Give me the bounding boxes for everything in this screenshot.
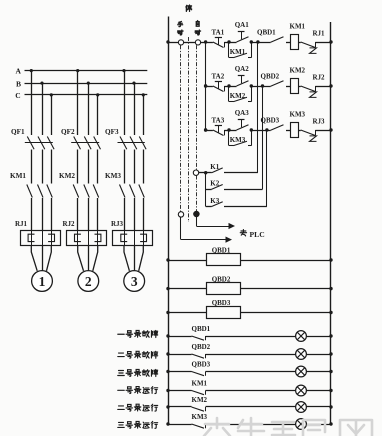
svg-text:KM1: KM1 bbox=[10, 172, 26, 180]
svg-text:RJ2: RJ2 bbox=[313, 73, 326, 81]
svg-text:3: 3 bbox=[131, 274, 138, 289]
svg-text:KM2: KM2 bbox=[192, 396, 208, 404]
svg-text:RJ1: RJ1 bbox=[15, 220, 28, 228]
svg-text:QF1: QF1 bbox=[11, 128, 25, 136]
svg-text:QBD2: QBD2 bbox=[192, 343, 211, 351]
svg-text:RJ1: RJ1 bbox=[313, 29, 326, 37]
svg-text:KM1: KM1 bbox=[192, 380, 208, 388]
svg-text:KM3: KM3 bbox=[230, 136, 246, 144]
svg-text:RJ3: RJ3 bbox=[313, 117, 326, 125]
svg-text:QF2: QF2 bbox=[61, 128, 75, 136]
svg-text:1: 1 bbox=[39, 274, 46, 289]
svg-text:KM3: KM3 bbox=[290, 110, 306, 118]
svg-text:QF3: QF3 bbox=[105, 128, 119, 136]
svg-text:QBD1: QBD1 bbox=[192, 325, 211, 333]
svg-text:TA3: TA3 bbox=[212, 117, 225, 125]
svg-text:QBD2: QBD2 bbox=[212, 275, 231, 283]
svg-text:2: 2 bbox=[85, 274, 92, 289]
svg-text:QA2: QA2 bbox=[235, 65, 250, 73]
svg-text:KM2: KM2 bbox=[59, 172, 75, 180]
svg-text:QBD1: QBD1 bbox=[212, 247, 231, 255]
svg-text:QA3: QA3 bbox=[235, 109, 250, 117]
svg-text:TA2: TA2 bbox=[212, 73, 225, 81]
svg-text:KM3: KM3 bbox=[105, 172, 121, 180]
svg-text:QA1: QA1 bbox=[235, 21, 250, 29]
svg-text:PLC: PLC bbox=[250, 230, 265, 239]
svg-text:QBD2: QBD2 bbox=[261, 73, 280, 81]
svg-text:B: B bbox=[16, 79, 21, 88]
svg-text:QBD3: QBD3 bbox=[192, 361, 211, 369]
svg-text:KM3: KM3 bbox=[192, 413, 208, 421]
svg-text:K1: K1 bbox=[210, 163, 219, 171]
svg-text:QBD3: QBD3 bbox=[212, 299, 231, 307]
svg-text:C: C bbox=[15, 91, 20, 100]
svg-text:TA1: TA1 bbox=[212, 29, 225, 37]
svg-text:K3: K3 bbox=[210, 197, 219, 205]
svg-text:KM2: KM2 bbox=[290, 66, 306, 74]
svg-text:K2: K2 bbox=[210, 180, 219, 188]
svg-text:QBD1: QBD1 bbox=[257, 29, 276, 37]
svg-text:KM1: KM1 bbox=[290, 22, 306, 30]
svg-text:RJ3: RJ3 bbox=[111, 220, 124, 228]
svg-text:KM2: KM2 bbox=[230, 92, 246, 100]
svg-text:KM1: KM1 bbox=[230, 48, 246, 56]
svg-text:QBD3: QBD3 bbox=[261, 117, 280, 125]
svg-text:A: A bbox=[16, 67, 22, 76]
svg-text:RJ2: RJ2 bbox=[63, 220, 76, 228]
